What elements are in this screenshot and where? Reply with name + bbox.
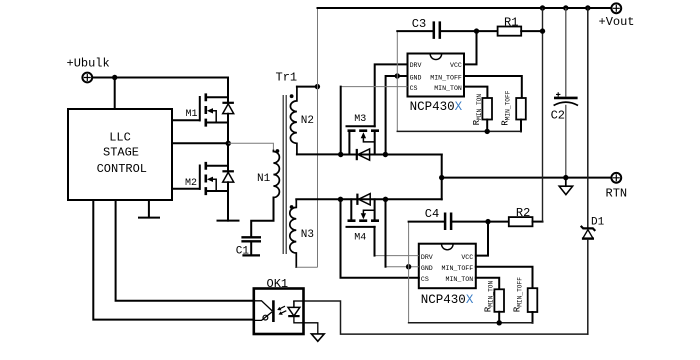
wire C3 left lead — [397, 30, 432, 32]
node N1 phase dot — [276, 149, 280, 153]
wire +Vout top bus — [318, 7, 611, 9]
svg-text:C2: C2 — [551, 108, 565, 122]
wire LLC down-left to optocoupler row B — [93, 200, 254, 320]
wire U1 CS to M3 drain — [341, 86, 408, 88]
svg-text:DRV: DRV — [421, 254, 433, 261]
resistor R_MIN_TON upper — [471, 94, 492, 132]
svg-text:NCP430X: NCP430X — [410, 100, 463, 114]
ground LLC (bar style) — [139, 200, 159, 218]
wire U2 DRV to M4 gate — [375, 255, 419, 257]
wire R2 right lead — [533, 221, 543, 223]
wire lower cell ground rail — [409, 322, 533, 324]
node half-bridge junction — [226, 141, 231, 146]
wire C3 right lead to R1 — [441, 30, 498, 32]
winding N1 — [257, 149, 279, 197]
phototransistor base bar — [272, 300, 275, 322]
wire bottom return path D1 to OK1 — [294, 301, 588, 334]
svg-text:DRV: DRV — [410, 62, 422, 69]
wire RTN rail — [442, 177, 612, 179]
svg-text:LLC: LLC — [109, 131, 131, 145]
node M4 right — [383, 197, 388, 202]
wire N2 top to +Vout riser — [297, 86, 318, 88]
wire N1 bottom to C1 — [251, 198, 273, 237]
wire LLC down-left to optocoupler row A — [116, 200, 254, 301]
wire C4 left lead — [409, 221, 444, 223]
resistor R_MIN_TOFF lower — [511, 277, 537, 323]
svg-text:MIN_TON: MIN_TON — [445, 276, 473, 283]
wire U2 GND to M4 source — [386, 266, 419, 268]
svg-text:STAGE: STAGE — [103, 146, 139, 160]
svg-text:CS: CS — [410, 85, 418, 92]
resistor R_MIN_TON lower — [482, 281, 504, 323]
node bus/D1 — [585, 5, 590, 10]
capacitor C1 — [236, 237, 261, 257]
op-amp U2 NCP430X lower — [419, 244, 476, 307]
node bus/R riser — [540, 5, 545, 10]
svg-text:Tr1: Tr1 — [276, 71, 298, 85]
svg-text:M4: M4 — [354, 233, 366, 244]
svg-text:+Ubulk: +Ubulk — [67, 57, 110, 71]
node C2/RTN junction — [563, 175, 568, 180]
svg-text:MIN_TOFF: MIN_TOFF — [430, 75, 462, 82]
node N3 phase dot — [290, 205, 294, 209]
ground RTN (triangle) — [559, 180, 572, 195]
terminal +Vout — [599, 3, 635, 29]
wire M4 row — [341, 198, 442, 200]
terminal +Ubulk — [67, 57, 110, 83]
node U2 GND junction — [406, 264, 411, 269]
ground M2 source (bar style) — [218, 220, 239, 222]
resistor R2 — [509, 206, 533, 226]
wire U1 GND riser — [396, 31, 398, 131]
svg-text:N2: N2 — [301, 115, 314, 127]
wire M3 row — [341, 154, 442, 156]
svg-text:N1: N1 — [257, 173, 271, 185]
optocoupler OK1 — [254, 277, 318, 334]
svg-text:RTN: RTN — [606, 186, 628, 200]
wire upper cell ground rail — [397, 130, 521, 132]
transformer core — [283, 95, 286, 254]
transistor M3 — [347, 114, 380, 160]
node M3 right — [383, 152, 388, 157]
svg-text:NCP430X: NCP430X — [421, 293, 474, 307]
svg-text:VCC: VCC — [461, 254, 473, 261]
node bus/C2 — [563, 5, 568, 10]
node R1 right junction — [540, 28, 545, 33]
wire U1 MIN_TOFF to R — [464, 76, 522, 98]
svg-text:GND: GND — [410, 75, 422, 82]
node N2 top junction — [315, 84, 320, 89]
LLC stage control block U-LLC — [68, 109, 172, 200]
node N2 phase dot — [290, 94, 294, 98]
svg-text:N3: N3 — [301, 229, 314, 241]
node M3 left — [338, 152, 343, 157]
svg-text:M3: M3 — [354, 114, 366, 125]
collector lead — [254, 301, 272, 311]
wire U1 VCC riser — [464, 31, 477, 64]
svg-text:C4: C4 — [425, 207, 439, 221]
svg-text:VCC: VCC — [450, 62, 462, 69]
node M4 left — [338, 197, 343, 202]
ground OK1 LED (triangle) — [311, 334, 324, 341]
node SR common tap — [439, 175, 444, 180]
wire U1 MIN_TON to R — [464, 87, 487, 98]
node U1 GND junction — [395, 73, 400, 78]
LED diode — [293, 301, 295, 307]
winding N3 — [290, 199, 314, 267]
svg-text:CS: CS — [421, 276, 429, 283]
svg-text:+Vout: +Vout — [599, 15, 635, 29]
light arrows — [279, 306, 287, 314]
transistor M2 — [185, 143, 234, 220]
wire U2 GND riser — [408, 222, 410, 323]
svg-text:GND: GND — [421, 265, 433, 272]
wire +Ubulk bus to M1 drain — [93, 77, 228, 79]
wire R1/R2 supply riser — [542, 8, 544, 222]
wire N3 top to M4 — [296, 198, 340, 200]
resistor R_MIN_TOFF upper — [499, 90, 525, 131]
wire N3 bottom to riser — [296, 266, 317, 268]
capacitor C2 polarized — [551, 8, 578, 178]
svg-text:MIN_TOFF: MIN_TOFF — [442, 265, 474, 272]
wire U2 VCC riser — [476, 222, 488, 256]
wire branch to LLC control top — [114, 78, 116, 110]
wire LLC to M2 gate — [172, 188, 200, 190]
transistor M1 — [186, 78, 234, 144]
wire U2 MIN_TOFF to R — [476, 267, 533, 289]
svg-text:CONTROL: CONTROL — [97, 162, 147, 176]
emitter lead with arrow — [254, 312, 272, 321]
wire riser Tr1 to +Vout bus — [317, 8, 319, 267]
op-amp U1 NCP430X upper — [408, 54, 465, 115]
node R_MIN_TON rail junction — [485, 129, 490, 134]
diode D1 zener — [581, 8, 605, 334]
wire LLC to M1 gate — [172, 119, 200, 121]
wire U2 CS to M4 drain — [341, 199, 419, 277]
wire half-bridge to N1 (resonant) — [228, 143, 273, 150]
node VCC/C4/R2 junction — [485, 219, 490, 224]
wire SR common node — [441, 155, 443, 200]
wire LLC to half-bridge node — [172, 142, 228, 144]
svg-text:MIN_TON: MIN_TON — [434, 85, 462, 92]
wire N2 bottom to M3 — [297, 153, 341, 155]
transistor M4 — [347, 194, 380, 244]
wire C4 right lead to R2 — [452, 221, 508, 223]
winding N2 — [290, 87, 314, 155]
node junction Ubulk/LLC — [112, 75, 117, 80]
wire U2 MIN_TON to R — [476, 278, 499, 290]
svg-text:M2: M2 — [185, 178, 197, 189]
capacitor C3 — [412, 17, 440, 39]
wire U1 DRV to M3 gate — [375, 64, 408, 126]
node VCC/C3/R1 junction — [474, 28, 479, 33]
svg-text:D1: D1 — [591, 217, 605, 229]
wire U1 GND to M3 source — [386, 76, 408, 154]
svg-text:M1: M1 — [186, 109, 198, 120]
capacitor C4 — [425, 207, 451, 230]
terminal RTN — [606, 173, 628, 200]
resistor R1 — [498, 16, 522, 36]
svg-text:C3: C3 — [412, 17, 426, 31]
node R_MIN_TON lower rail junction — [497, 320, 502, 325]
wire R1 right lead — [521, 30, 542, 32]
